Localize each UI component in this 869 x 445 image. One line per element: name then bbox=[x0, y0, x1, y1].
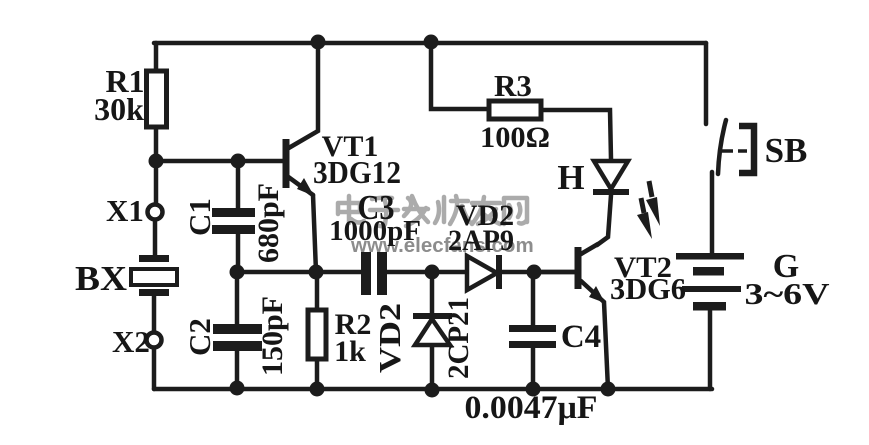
svg-text:X1: X1 bbox=[106, 193, 144, 228]
svg-text:2AP9: 2AP9 bbox=[448, 224, 514, 257]
svg-text:680pF: 680pF bbox=[252, 183, 285, 263]
svg-text:1k: 1k bbox=[334, 335, 366, 368]
svg-text:3~6V: 3~6V bbox=[745, 276, 831, 311]
svg-text:100Ω: 100Ω bbox=[480, 121, 550, 154]
svg-text:C2: C2 bbox=[182, 318, 217, 356]
svg-text:0.0047μF: 0.0047μF bbox=[465, 390, 598, 426]
svg-text:150pF: 150pF bbox=[256, 296, 289, 376]
svg-text:C1: C1 bbox=[182, 198, 217, 236]
svg-text:X2: X2 bbox=[112, 324, 150, 359]
svg-text:1000pF: 1000pF bbox=[329, 215, 421, 247]
svg-text:SB: SB bbox=[765, 131, 808, 170]
svg-text:3DG6: 3DG6 bbox=[610, 271, 686, 306]
svg-text:H: H bbox=[557, 158, 584, 197]
svg-text:BX: BX bbox=[75, 259, 127, 298]
svg-text:VD2: VD2 bbox=[372, 303, 407, 373]
svg-text:C4: C4 bbox=[561, 319, 601, 355]
svg-text:R3: R3 bbox=[494, 68, 532, 103]
svg-text:30k: 30k bbox=[94, 91, 144, 127]
svg-text:3DG12: 3DG12 bbox=[313, 154, 401, 190]
svg-text:2CP21: 2CP21 bbox=[442, 297, 475, 379]
